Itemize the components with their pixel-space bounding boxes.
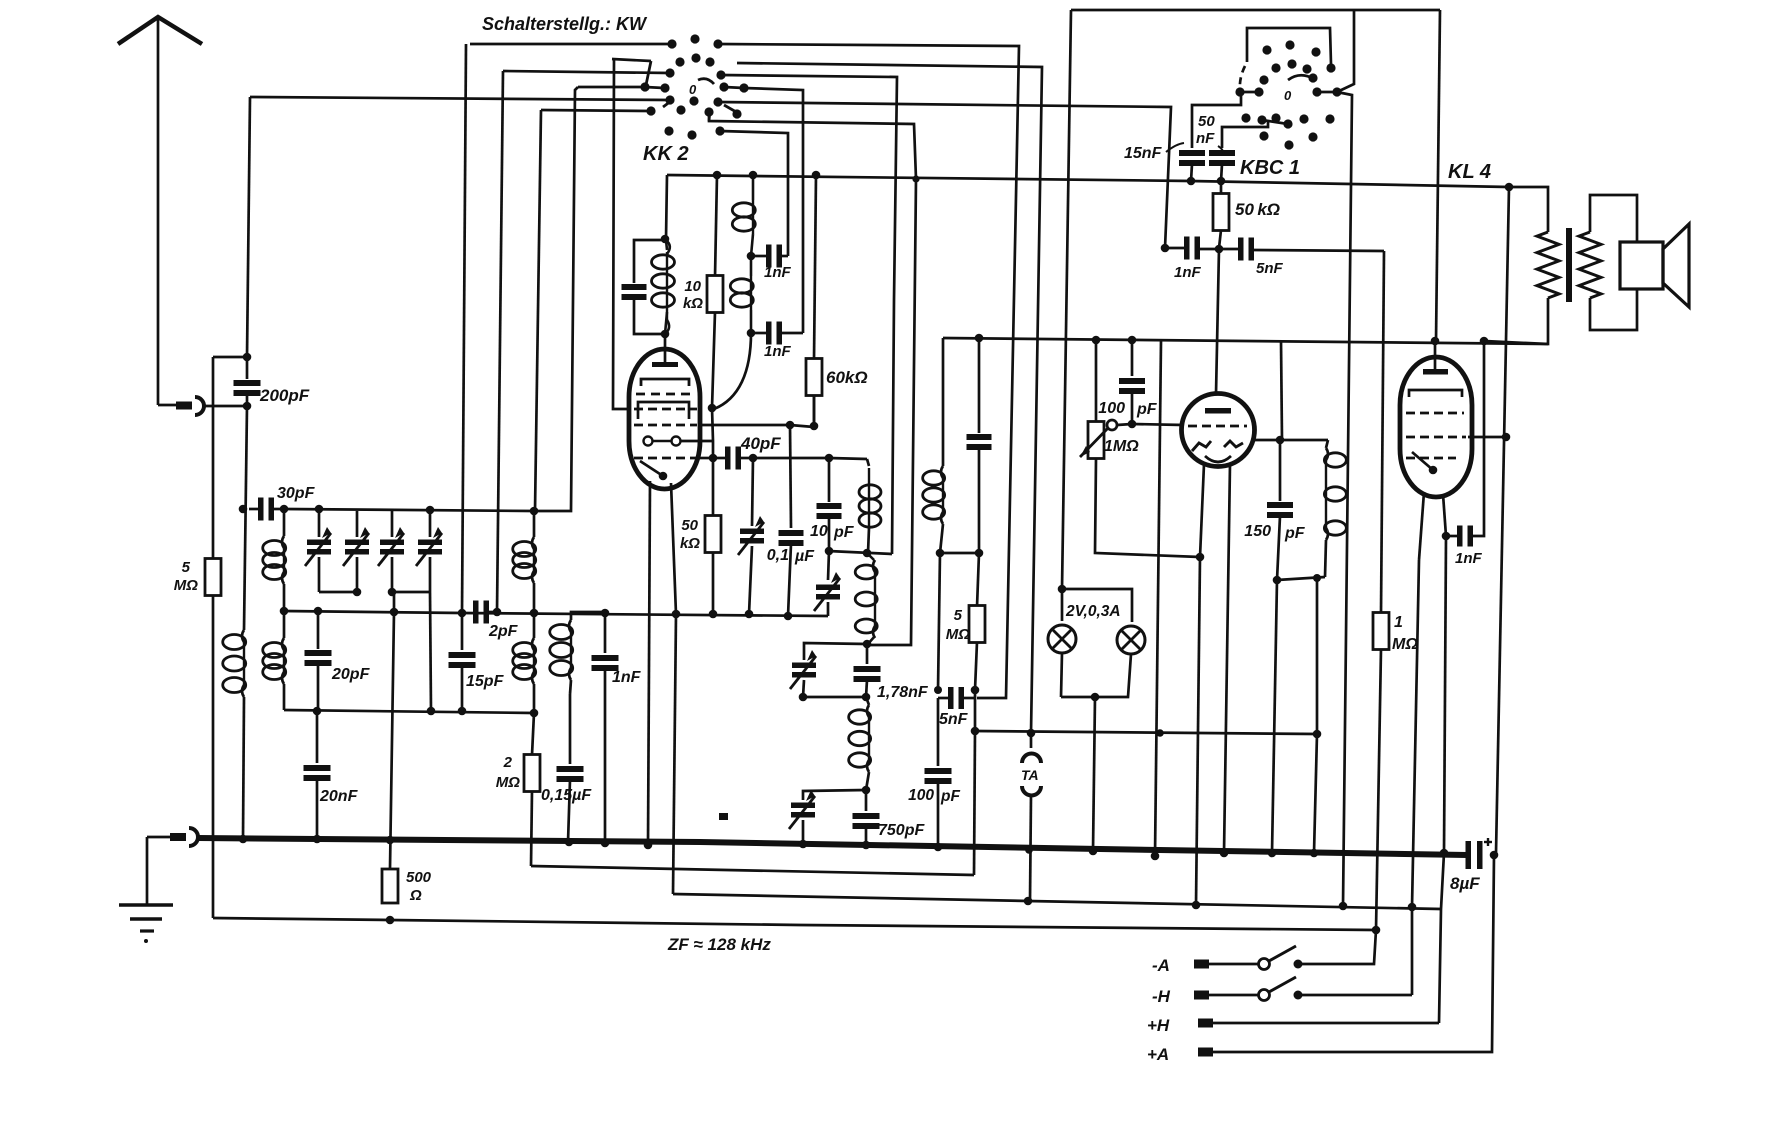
capacitor 1nF coupling <box>1184 237 1190 260</box>
svg-text:20nF: 20nF <box>319 788 359 805</box>
mixer grid coil lower <box>533 613 536 638</box>
wire AVC col mid <box>974 690 977 731</box>
wire -H riser <box>1411 907 1414 995</box>
wafer KBC1 to heater switch col <box>1337 92 1352 906</box>
dial lamp 1 <box>1048 625 1076 653</box>
svg-text:+A: +A <box>1147 1045 1169 1064</box>
node TA line right <box>1313 730 1322 739</box>
tube KK2 anode bracket <box>641 379 689 386</box>
svg-text:60kΩ: 60kΩ <box>826 368 868 387</box>
tube KK2 screen box <box>638 402 689 419</box>
tube KK2 grid dash1 <box>636 393 693 396</box>
svg-text:KL 4: KL 4 <box>1448 161 1491 183</box>
wire KW y59 <box>612 59 651 61</box>
tube KBC1 pin right <box>1224 464 1230 853</box>
wire KBC1 top cap <box>1216 249 1219 394</box>
bus junction 150pF <box>1268 849 1277 858</box>
tube KBC1 diode left <box>1192 441 1211 451</box>
bus junction lamp <box>1089 847 1098 856</box>
wire KW y111 <box>541 110 651 111</box>
node anode 150pF <box>1276 436 1285 445</box>
node heater switch col <box>1339 902 1348 911</box>
node KL4 anode top <box>1431 337 1440 346</box>
bus junction T6 <box>799 840 808 849</box>
tube KL4 screen dash <box>1406 436 1466 439</box>
trimmer T6 <box>791 803 815 809</box>
node y711 20nF <box>313 707 322 716</box>
wafer KK2 contact arc <box>698 79 714 84</box>
terminal +A <box>1198 1048 1213 1057</box>
capacitor 750pF <box>865 790 868 811</box>
node 1M bias line <box>1372 926 1381 935</box>
node det cap top <box>975 334 984 343</box>
resistor 500&#937; <box>382 869 398 903</box>
node 100pF top <box>1128 336 1137 345</box>
tube KK2 cathode <box>640 461 663 476</box>
node B+ 50nF <box>1217 177 1226 186</box>
node filter mid left <box>799 693 808 702</box>
svg-text:150: 150 <box>1244 523 1271 540</box>
chassis bus (thick) <box>198 838 1467 855</box>
lamp box bottom <box>1061 653 1062 697</box>
wire grid tank top y509 <box>284 509 534 511</box>
stray mark <box>719 813 728 820</box>
node filter mid right <box>862 693 871 702</box>
wafer switch KBC1 frame <box>1337 11 1354 92</box>
svg-text:µF: µF <box>794 548 815 565</box>
wire switch col to grid <box>613 59 630 409</box>
wire grid KBC1 <box>1132 424 1184 425</box>
tube KK2 grid dash4 <box>634 457 697 460</box>
wire y458 to tank <box>753 457 829 460</box>
wire switch col KW2 <box>497 71 503 612</box>
svg-text:MΩ: MΩ <box>496 774 520 791</box>
wafer KBC1 contact arc <box>1288 75 1314 80</box>
TA jack upper <box>1030 733 1033 748</box>
svg-text:20pF: 20pF <box>331 666 371 683</box>
IF tank cap det <box>978 338 981 433</box>
node y612 15pF <box>458 609 467 618</box>
wire KK2 y131 to 1nF1 <box>720 131 788 256</box>
svg-text:0,15µF: 0,15µF <box>541 787 592 804</box>
trimmer rail right <box>392 591 430 594</box>
osc tank coil <box>867 459 869 466</box>
svg-text:10: 10 <box>684 278 701 295</box>
wire pot bottom to filament <box>1095 459 1200 557</box>
wafer KBC1 arm c <box>1262 120 1288 124</box>
capacitor 15nF <box>1192 95 1241 148</box>
node KBC1 pin left <box>1196 553 1205 562</box>
node 40pF right <box>749 454 758 463</box>
tank cap KK2 <box>634 240 665 283</box>
tube KK2 grid dash2 <box>634 408 697 411</box>
wire y612 long <box>284 611 828 616</box>
lamp box top <box>1062 589 1132 622</box>
svg-text:0,1: 0,1 <box>767 547 789 564</box>
wire y711 <box>284 710 534 713</box>
wire switch col KW1 <box>462 44 466 613</box>
node lamp box top <box>1058 585 1067 594</box>
svg-text:50: 50 <box>1198 113 1215 130</box>
wire KW y71 <box>503 71 670 73</box>
node B+ 15nF <box>1187 177 1196 186</box>
svg-text:50: 50 <box>681 517 698 534</box>
node B+ switch col <box>912 175 919 182</box>
wire +H col lower <box>1439 853 1444 1023</box>
capacitor 40pF (series) <box>713 457 726 460</box>
switch -A contact <box>1294 960 1303 969</box>
capacitor 1nF osc1 <box>751 255 767 258</box>
bus junction antenna coil <box>239 835 248 844</box>
capacitor 5nF coupling <box>1238 238 1244 261</box>
wire det tank bottom <box>940 552 979 555</box>
svg-text:nF: nF <box>1196 130 1215 147</box>
node trimmer T1 top <box>315 505 324 514</box>
capacitor 50nF <box>1222 121 1268 148</box>
wire KW y87 <box>578 86 645 89</box>
wire TA line y733 <box>975 731 1317 734</box>
wire trimmer T4 down <box>430 592 431 711</box>
capacitor 1nF mixer <box>604 613 607 653</box>
tube KK2 top electrode <box>652 362 678 367</box>
ground symbol <box>119 903 173 907</box>
wire KK2 y104 long <box>718 102 1171 248</box>
anode tank coil <box>1326 440 1328 448</box>
bus junction 500ohm <box>386 836 395 845</box>
capacitor 15pF <box>461 613 464 650</box>
node primary bottom <box>1480 337 1489 346</box>
svg-text:5: 5 <box>182 559 191 576</box>
tube KL4 cathode <box>1412 452 1433 470</box>
wire KW col 200pF <box>247 97 250 357</box>
wafer switch KK2 contacts <box>667 39 676 48</box>
potentiometer 1M&#937; <box>1095 340 1098 422</box>
bus junction KBC1 pin <box>1220 849 1229 858</box>
node B+ output <box>1505 183 1514 192</box>
node grid KBC1 <box>1128 420 1137 429</box>
tube KBC1 filament arc <box>1205 456 1231 462</box>
wire 500ohm branch <box>390 612 394 868</box>
switch -A lever <box>1269 946 1296 961</box>
trimmer T2 <box>356 511 359 537</box>
bus junction mid col <box>1151 852 1160 861</box>
terminal -H <box>1194 991 1209 1000</box>
svg-text:pF: pF <box>833 524 855 541</box>
svg-text:Ω: Ω <box>409 887 422 904</box>
tube KK2 envelope <box>629 349 700 489</box>
wire KK2 to lamp column <box>737 63 1042 733</box>
tube KL4 grid dash2 <box>1406 412 1464 415</box>
wire KBC1 anode <box>1252 439 1328 442</box>
long column mid <box>1155 341 1161 856</box>
wafer KK2 link row4 <box>645 87 664 88</box>
node 5nF left <box>934 686 942 694</box>
wafer KK2 moving arm a <box>646 61 651 85</box>
trimmer rail left <box>319 591 357 594</box>
wafer KBC1 link b <box>1317 91 1337 94</box>
node y612 1nF <box>601 609 610 618</box>
wire -A riser <box>1298 930 1376 964</box>
wire KK2 anode grid y425 <box>699 424 790 427</box>
wire 2M to AVC return <box>531 866 974 875</box>
filter coil <box>866 697 869 705</box>
node det cap bottom <box>975 549 984 558</box>
wire KK2 to TA column <box>718 44 1019 698</box>
wire B+ to tank <box>666 175 667 239</box>
tube KK2 pin heater <box>671 483 676 614</box>
tube KK2 grid dash3 <box>634 424 697 427</box>
svg-text:-H: -H <box>1152 987 1171 1006</box>
bus crossing TA dot <box>1025 846 1033 854</box>
wafer KK2 link row4r <box>724 87 744 88</box>
node KL4 1nF <box>1442 532 1451 541</box>
node B+ osc coil <box>749 171 758 180</box>
wafer KK2 moving arm c <box>724 105 738 113</box>
mixer grid coil upper <box>533 511 536 537</box>
label 8uF plus <box>1484 841 1492 843</box>
resistor 5M&#937; AVC <box>977 553 979 607</box>
node y612 2pF <box>493 608 502 617</box>
resistor 2M&#937; chain <box>532 713 534 755</box>
svg-text:1: 1 <box>1394 614 1403 631</box>
node filter top <box>863 640 872 649</box>
lamp feed wire from switch <box>1071 9 1440 12</box>
bus junction det <box>934 843 943 852</box>
resistor 5M&#937; (antenna leak) <box>205 559 221 596</box>
node pot top <box>1092 336 1101 345</box>
svg-text:2V,0,3A: 2V,0,3A <box>1065 603 1121 620</box>
node det coil bottom <box>936 549 945 558</box>
wire KW y43 <box>470 43 672 46</box>
wire tank bottom link <box>1277 577 1325 580</box>
svg-text:0: 0 <box>689 82 697 97</box>
resistor 60k&#937; <box>814 175 816 360</box>
node 500ohm bias line <box>386 916 395 925</box>
svg-text:kΩ: kΩ <box>680 535 700 552</box>
stub rail to y612 <box>393 592 396 612</box>
svg-text:1,78nF: 1,78nF <box>877 684 929 701</box>
node B+ tank <box>661 235 670 244</box>
svg-text:-A: -A <box>1152 956 1170 975</box>
wire TA col up <box>1316 578 1319 734</box>
svg-text:MΩ: MΩ <box>174 577 198 594</box>
svg-text:500: 500 <box>406 869 432 886</box>
antenna <box>118 17 202 44</box>
node tank bottom TA col <box>1313 574 1321 582</box>
svg-text:2: 2 <box>503 754 513 771</box>
B+ column <box>1496 187 1509 853</box>
padder varcap2 <box>828 551 829 580</box>
B+ rail y178 <box>667 175 1509 187</box>
coil L2a <box>283 509 286 536</box>
node trimmer T4 top <box>426 506 435 515</box>
svg-text:+H: +H <box>1147 1016 1170 1035</box>
tube KL4 bracket <box>1409 390 1462 397</box>
wire lamp return to bus <box>1093 697 1095 851</box>
switch -H contact <box>1294 991 1303 1000</box>
node screen B+ <box>1502 433 1511 442</box>
wire +H <box>1213 1022 1439 1025</box>
node 0,1uF top <box>786 421 795 430</box>
wire filter mid <box>803 696 866 699</box>
svg-text:kΩ: kΩ <box>683 295 703 312</box>
antenna plug connector <box>176 402 192 410</box>
wire anode top y339 <box>943 338 1548 344</box>
node 10pF top <box>825 454 834 463</box>
capacitor 1,78nF <box>866 644 869 664</box>
transformer core <box>1566 228 1572 302</box>
tube KBC1 top electrode <box>1205 408 1231 414</box>
node y612 50k bottom <box>709 610 718 619</box>
wire KK2 y121 to B+ <box>709 112 916 179</box>
wire KBC1 pin to heater line <box>1196 557 1200 905</box>
wire KK2 to osc tap <box>721 75 897 554</box>
capacitor 200pF <box>246 394 249 406</box>
tube KL4 pin right <box>1443 494 1446 536</box>
tube KBC1 envelope <box>1182 394 1255 467</box>
resistor 10k&#937; <box>715 175 717 277</box>
node B+ 10k <box>713 171 722 180</box>
wire switch col KW3 <box>535 110 541 511</box>
svg-text:200pF: 200pF <box>259 386 310 405</box>
node y711 15pF <box>458 707 467 716</box>
wire 5M&#937; branch upper <box>212 357 215 559</box>
bus junction 0,15uF <box>565 838 574 847</box>
svg-text:1MΩ: 1MΩ <box>1104 438 1139 455</box>
svg-text:50 kΩ: 50 kΩ <box>1235 200 1280 219</box>
wafer KBC1 link a <box>1240 91 1259 94</box>
oscillator pad coil <box>571 612 604 620</box>
wire node A2 to 5M&#937; branch <box>213 356 247 359</box>
tube KL4 grid dash3 <box>1406 457 1456 460</box>
svg-text:1nF: 1nF <box>1455 550 1483 567</box>
node 1nF left <box>1161 244 1170 253</box>
svg-text:0: 0 <box>1284 88 1292 103</box>
svg-text:Schalterstellg.: KW: Schalterstellg.: KW <box>482 14 648 34</box>
bus junction 1nF <box>601 839 610 848</box>
terminal -A <box>1194 960 1209 969</box>
wire KK2 y88 to 1nF2 <box>744 88 803 333</box>
node TA line left <box>971 727 980 736</box>
svg-text:5nF: 5nF <box>939 711 969 728</box>
node 40pF left <box>709 454 718 463</box>
svg-text:750pF: 750pF <box>878 822 925 839</box>
wire 150pF to bus <box>1272 580 1277 853</box>
node rail T3 <box>388 588 397 597</box>
node 5nF right <box>971 686 980 695</box>
wire KW y98 long <box>250 97 670 100</box>
svg-text:5: 5 <box>954 607 963 624</box>
tank coil KK2 <box>666 240 667 250</box>
node TA line col <box>1156 729 1164 737</box>
svg-text:ZF ≈ 128 kHz: ZF ≈ 128 kHz <box>667 935 771 954</box>
anode feed column <box>1436 10 1440 341</box>
wire KK2 mixer grid y458 <box>699 457 713 460</box>
resistor 1M&#937; KL4 <box>1381 251 1384 613</box>
bias line y918 (to -A) <box>213 918 1376 930</box>
bus junction 750pF <box>862 841 871 850</box>
svg-text:1nF: 1nF <box>1174 264 1202 281</box>
node y612 heater pin <box>672 610 681 619</box>
wire det coil to 5nF <box>938 553 940 690</box>
wire primary bottom <box>1484 298 1548 344</box>
wire AVC col to return <box>974 731 975 875</box>
wire osc grid to 50k <box>712 408 713 441</box>
svg-text:MΩ: MΩ <box>946 626 970 643</box>
wire KL4 screen out <box>1468 436 1506 439</box>
tube KK2 osc grid circles <box>644 437 653 446</box>
pot wiper <box>1107 420 1117 430</box>
capacitor 20pF <box>317 611 320 649</box>
node mixer coil top <box>530 507 539 516</box>
wire to ground <box>146 837 149 904</box>
lamp feed column <box>1062 10 1071 589</box>
antenna coil L1 <box>244 406 247 630</box>
IF tank coil det <box>942 338 945 466</box>
node y612 mixer coil <box>530 609 539 618</box>
wire B+ to primary <box>1509 187 1548 232</box>
transformer secondary <box>1579 232 1601 298</box>
wire filter bot <box>803 790 866 800</box>
tube KBC1 grid dash <box>1188 425 1247 428</box>
node grid circuit <box>1215 245 1224 254</box>
capacitor 150pF <box>1279 440 1282 501</box>
wafer KBC1 inner wire <box>1247 28 1331 64</box>
wafer KBC1 arm d <box>1240 66 1245 90</box>
tube KBC1 pin left <box>1200 464 1204 557</box>
wafer KK2 moving arm b <box>663 101 671 107</box>
terminal +H <box>1198 1019 1213 1028</box>
wire secondary top <box>1590 195 1637 242</box>
resistor 50k&#937; osc <box>705 516 721 553</box>
svg-text:KK 2: KK 2 <box>643 143 689 165</box>
capacitor 0,1uF <box>790 425 791 528</box>
node 60k bottom <box>810 422 819 431</box>
speaker cone <box>1663 224 1689 307</box>
transformer primary <box>1537 232 1559 298</box>
svg-text:KBC 1: KBC 1 <box>1240 157 1300 179</box>
svg-text:100: 100 <box>908 787 934 804</box>
svg-text:1nF: 1nF <box>612 669 642 686</box>
svg-text:30pF: 30pF <box>277 485 316 502</box>
capacitor 1nF KL4 <box>1446 535 1457 538</box>
svg-text:pF: pF <box>940 788 960 805</box>
TA jack lower <box>1022 786 1041 796</box>
node lamp return <box>1091 693 1100 702</box>
trimmer T5 <box>792 663 816 669</box>
wire det col to bus <box>937 698 940 766</box>
node y711 T4 <box>427 707 436 716</box>
svg-text:15nF: 15nF <box>1124 145 1163 162</box>
dial lamp 2 <box>1117 626 1145 654</box>
node osc pri 1nF2 <box>747 329 756 338</box>
wire KL4 anode top <box>1434 341 1437 369</box>
capacitor 30pF (series) <box>258 498 264 521</box>
capacitor 8uF <box>1466 841 1472 869</box>
node y612 osc varcap <box>745 610 754 619</box>
node tank bottom <box>661 330 670 339</box>
node rail T2 <box>353 588 362 597</box>
switch -H pivot <box>1259 990 1270 1001</box>
node heater -H col <box>1408 903 1417 912</box>
svg-text:8µF: 8µF <box>1450 874 1480 893</box>
heater return line y900 <box>673 894 1441 909</box>
node osc tap <box>863 549 872 558</box>
wire antenna to plug <box>158 404 176 407</box>
ground plug connector <box>147 836 170 839</box>
capacitor 0,15uF <box>557 766 584 772</box>
wire -A <box>1209 963 1258 966</box>
